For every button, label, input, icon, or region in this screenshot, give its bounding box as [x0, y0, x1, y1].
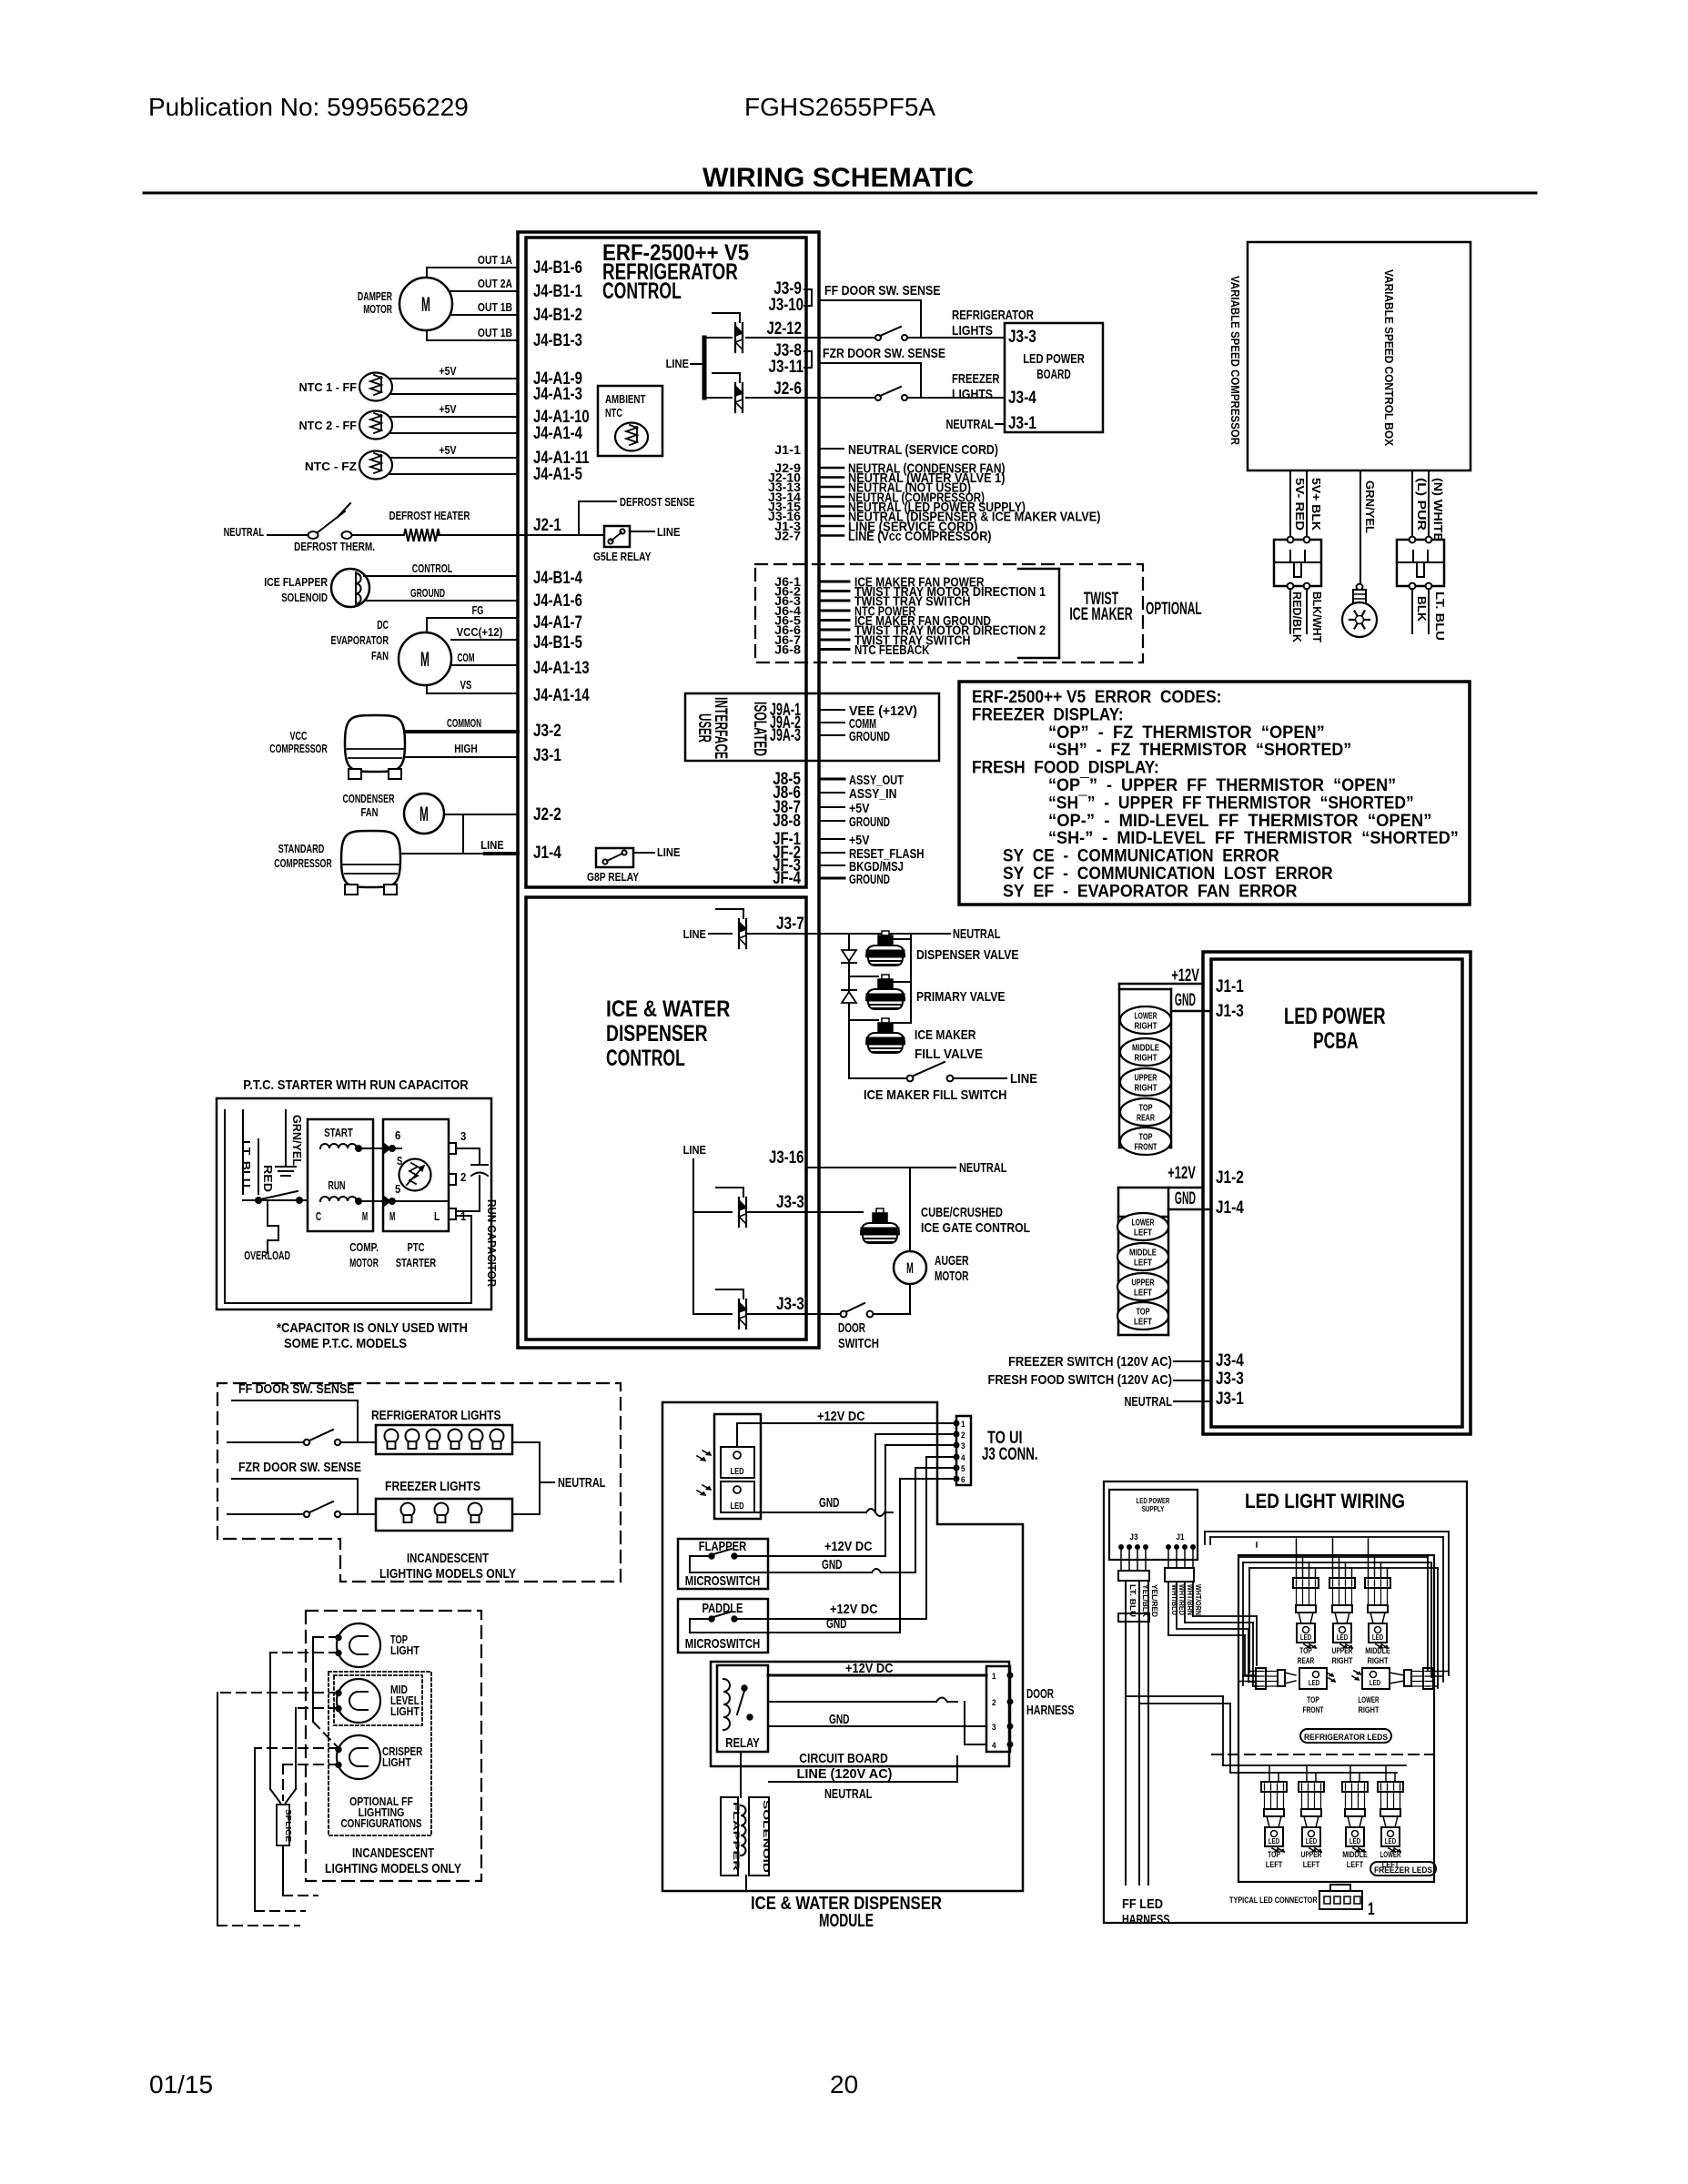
svg-text:LINE: LINE	[683, 927, 707, 941]
svg-text:“SH-” - MID-LEVEL FF THERM: “SH-” - MID-LEVEL FF THERMISTOR “SHORTED…	[1048, 829, 1459, 848]
svg-text:MICROSWITCH: MICROSWITCH	[685, 1636, 761, 1652]
svg-text:OUT 1B: OUT 1B	[478, 300, 512, 314]
svg-text:FGHS2655PF5A: FGHS2655PF5A	[744, 93, 935, 121]
svg-text:SY CE - COMMUNICATION ERRO: SY CE - COMMUNICATION ERROR	[1003, 847, 1279, 866]
svg-text:J3-7: J3-7	[776, 915, 804, 934]
svg-text:OUT 2A: OUT 2A	[478, 277, 513, 290]
svg-text:RUN: RUN	[329, 1178, 346, 1192]
svg-text:J1-4: J1-4	[533, 844, 561, 863]
svg-text:LOWER: LOWER	[1359, 1695, 1380, 1704]
svg-text:CUBE/CRUSHED: CUBE/CRUSHED	[921, 1205, 1003, 1220]
svg-text:UPPER: UPPER	[1132, 1279, 1156, 1289]
svg-text:INTERFACE: INTERFACE	[711, 697, 730, 759]
svg-text:NTC - FZ: NTC - FZ	[305, 460, 357, 473]
svg-text:AMBIENT: AMBIENT	[605, 392, 645, 406]
svg-text:MIDDLE: MIDDLE	[1132, 1044, 1159, 1054]
svg-text:OUT 1A: OUT 1A	[478, 253, 513, 267]
svg-text:J2-1: J2-1	[533, 516, 561, 535]
svg-text:ICE MAKER: ICE MAKER	[915, 1027, 976, 1043]
svg-text:CONFIGURATIONS: CONFIGURATIONS	[341, 1816, 422, 1830]
svg-text:J3 CONN.: J3 CONN.	[982, 1445, 1038, 1464]
svg-text:LEFT: LEFT	[1266, 1860, 1283, 1869]
svg-text:1: 1	[1368, 1900, 1375, 1919]
svg-text:FLAPPER: FLAPPER	[732, 1802, 741, 1872]
svg-text:FRONT: FRONT	[1303, 1705, 1324, 1714]
svg-text:G8P RELAY: G8P RELAY	[587, 870, 639, 884]
svg-text:J3-1: J3-1	[1216, 1390, 1244, 1409]
svg-text:DISPENSER VALVE: DISPENSER VALVE	[916, 947, 1019, 963]
svg-text:J4-A1-6: J4-A1-6	[533, 591, 582, 611]
svg-text:INCANDESCENT: INCANDESCENT	[407, 1551, 489, 1566]
svg-text:NEUTRAL: NEUTRAL	[1125, 1394, 1173, 1410]
svg-text:J2-2: J2-2	[533, 805, 561, 824]
svg-text:6: 6	[961, 1475, 965, 1484]
svg-text:L: L	[434, 1209, 440, 1223]
svg-text:FRESH FOOD DISPLAY:: FRESH FOOD DISPLAY:	[972, 759, 1159, 778]
svg-text:BLK/WHT: BLK/WHT	[1310, 591, 1324, 642]
svg-text:M: M	[389, 1209, 395, 1223]
svg-text:LINE: LINE	[480, 838, 504, 852]
svg-text:LED LIGHT WIRING: LED LIGHT WIRING	[1245, 1490, 1405, 1512]
svg-text:STANDARD: STANDARD	[278, 842, 325, 855]
svg-text:LIGHT: LIGHT	[390, 1704, 419, 1718]
svg-text:LEFT: LEFT	[1382, 1860, 1400, 1869]
svg-text:DAMPER: DAMPER	[358, 289, 393, 303]
svg-text:LED: LED	[1349, 1837, 1360, 1845]
svg-text:FREEZER: FREEZER	[952, 371, 1000, 387]
svg-text:WIRING SCHEMATIC: WIRING SCHEMATIC	[702, 163, 974, 193]
svg-text:LED: LED	[1337, 1633, 1348, 1642]
svg-text:COMP.: COMP.	[349, 1240, 379, 1254]
svg-text:J3-3: J3-3	[776, 1193, 804, 1212]
svg-text:LINE (120V AC): LINE (120V AC)	[797, 1766, 893, 1782]
svg-text:GROUND: GROUND	[410, 586, 445, 600]
svg-text:TOP: TOP	[1268, 1850, 1280, 1859]
svg-text:RIGHT: RIGHT	[1332, 1656, 1353, 1665]
svg-text:ICE MAKER: ICE MAKER	[1069, 605, 1132, 624]
svg-text:J4-A1-14: J4-A1-14	[533, 686, 590, 705]
svg-text:SWITCH: SWITCH	[838, 1336, 879, 1351]
svg-text:NEUTRAL: NEUTRAL	[224, 525, 264, 539]
svg-text:J2-6: J2-6	[773, 379, 802, 399]
svg-text:+12V DC: +12V DC	[830, 1602, 878, 1617]
svg-text:NTC 1 - FF: NTC 1 - FF	[299, 380, 358, 394]
svg-text:SUPPLY: SUPPLY	[1142, 1505, 1165, 1513]
svg-text:LINE: LINE	[657, 845, 681, 859]
svg-text:“SH” - FZ THERMISTOR “SHOR: “SH” - FZ THERMISTOR “SHORTED”	[1048, 741, 1351, 760]
svg-text:+12V: +12V	[1167, 1164, 1196, 1183]
svg-text:RUN CAPACITOR: RUN CAPACITOR	[485, 1199, 499, 1288]
svg-text:“SH¯” - UPPER FF THERMISTOR: “SH¯” - UPPER FF THERMISTOR “SHORTED”	[1048, 794, 1414, 813]
svg-text:NEUTRAL: NEUTRAL	[558, 1475, 606, 1491]
svg-text:TOP: TOP	[1299, 1646, 1312, 1655]
svg-text:FAN: FAN	[361, 805, 379, 819]
svg-text:LEFT: LEFT	[1134, 1228, 1152, 1239]
svg-text:J3: J3	[1129, 1532, 1137, 1542]
svg-text:FILL VALVE: FILL VALVE	[915, 1046, 983, 1062]
svg-text:RIGHT: RIGHT	[1135, 1054, 1157, 1064]
svg-text:LEFT: LEFT	[1303, 1860, 1320, 1869]
svg-text:LED: LED	[731, 1501, 744, 1512]
svg-text:GND: GND	[1175, 1189, 1196, 1208]
svg-text:BLK: BLK	[1415, 596, 1429, 622]
svg-text:MIDDLE: MIDDLE	[1365, 1646, 1390, 1655]
svg-text:ICE & WATER: ICE & WATER	[606, 996, 730, 1022]
svg-text:1: 1	[992, 1672, 996, 1681]
svg-text:FF LED: FF LED	[1122, 1896, 1163, 1912]
svg-text:J1-1: J1-1	[774, 443, 801, 457]
svg-text:J3-3: J3-3	[1008, 328, 1036, 347]
svg-text:YEL/RED: YEL/RED	[1150, 1584, 1158, 1617]
svg-text:PCBA: PCBA	[1313, 1028, 1359, 1054]
svg-text:J4-B1-5: J4-B1-5	[533, 633, 582, 652]
svg-text:3: 3	[961, 1441, 965, 1451]
svg-text:J4-B1-6: J4-B1-6	[533, 258, 582, 278]
svg-text:J1: J1	[1176, 1532, 1184, 1542]
svg-text:J3-3: J3-3	[1216, 1370, 1244, 1389]
svg-text:LT. BLU: LT. BLU	[1433, 591, 1447, 641]
svg-text:Publication No: 5995656229: Publication No: 5995656229	[148, 93, 469, 121]
svg-text:PRIMARY VALVE: PRIMARY VALVE	[916, 989, 1006, 1005]
svg-text:TYPICAL LED CONNECTOR: TYPICAL LED CONNECTOR	[1229, 1896, 1318, 1905]
svg-text:OPTIONAL: OPTIONAL	[1146, 600, 1202, 619]
svg-text:GROUND: GROUND	[849, 872, 890, 887]
svg-text:LINE (Vcc COMPRESSOR): LINE (Vcc COMPRESSOR)	[848, 529, 992, 544]
svg-text:LIGHTS: LIGHTS	[952, 387, 993, 402]
svg-text:VARIABLE SPEED COMPRESSOR: VARIABLE SPEED COMPRESSOR	[1228, 276, 1242, 446]
svg-text:ASSY_IN: ASSY_IN	[849, 786, 897, 802]
svg-text:PTC: PTC	[408, 1240, 425, 1254]
svg-text:DEFROST SENSE: DEFROST SENSE	[620, 495, 695, 509]
svg-text:REAR: REAR	[1137, 1114, 1156, 1124]
svg-text:RIGHT: RIGHT	[1135, 1084, 1157, 1094]
svg-text:CIRCUIT BOARD: CIRCUIT BOARD	[799, 1751, 888, 1766]
svg-text:OUT 1B: OUT 1B	[478, 326, 512, 339]
svg-text:M: M	[419, 803, 429, 825]
svg-text:NEUTRAL: NEUTRAL	[946, 417, 995, 432]
svg-text:“OP” - FZ THERMISTOR “OPEN: “OP” - FZ THERMISTOR “OPEN”	[1048, 723, 1325, 743]
svg-text:GND: GND	[819, 1495, 840, 1511]
svg-text:+12V DC: +12V DC	[824, 1539, 873, 1554]
svg-text:5V+ BLK: 5V+ BLK	[1309, 478, 1323, 531]
svg-text:M: M	[362, 1209, 368, 1223]
svg-text:20: 20	[830, 2070, 858, 2098]
svg-text:GND: GND	[1175, 991, 1196, 1010]
svg-text:DISPENSER: DISPENSER	[606, 1021, 708, 1046]
svg-text:J3-10: J3-10	[769, 296, 804, 315]
svg-text:M: M	[906, 1259, 914, 1277]
svg-text:VARIABLE SPEED CONTROL BOX: VARIABLE SPEED CONTROL BOX	[1382, 269, 1396, 446]
svg-text:LIGHTING MODELS ONLY: LIGHTING MODELS ONLY	[325, 1861, 461, 1876]
svg-text:COMPRESSOR: COMPRESSOR	[269, 742, 328, 755]
svg-text:J4-B1-4: J4-B1-4	[533, 569, 582, 588]
svg-text:CONDENSER: CONDENSER	[342, 792, 395, 805]
svg-text:LED: LED	[1372, 1633, 1383, 1642]
svg-text:LIGHT: LIGHT	[382, 1755, 411, 1769]
svg-text:STARTER: STARTER	[396, 1256, 437, 1269]
svg-text:+5V: +5V	[440, 402, 457, 416]
svg-text:+5V: +5V	[440, 443, 457, 457]
svg-text:UPPER: UPPER	[1332, 1646, 1353, 1655]
svg-text:3: 3	[992, 1723, 996, 1732]
svg-text:TOP: TOP	[1139, 1133, 1153, 1143]
svg-text:J1-3: J1-3	[1216, 1002, 1244, 1021]
svg-text:+12V DC: +12V DC	[845, 1661, 894, 1676]
svg-text:HIGH: HIGH	[454, 742, 477, 755]
svg-text:(L) PUR: (L) PUR	[1415, 478, 1429, 531]
svg-text:MICROSWITCH: MICROSWITCH	[685, 1573, 761, 1589]
svg-text:DEFROST THERM.: DEFROST THERM.	[294, 540, 375, 553]
svg-text:ISOLATED: ISOLATED	[750, 702, 769, 756]
svg-text:HARNESS: HARNESS	[1026, 1703, 1075, 1718]
svg-text:LED POWER: LED POWER	[1284, 1004, 1386, 1029]
svg-text:G5LE RELAY: G5LE RELAY	[593, 550, 652, 563]
svg-text:J4-B1-3: J4-B1-3	[533, 331, 582, 350]
svg-text:NTC 2 - FF: NTC 2 - FF	[299, 419, 358, 432]
svg-text:COMMON: COMMON	[447, 716, 481, 730]
svg-text:LED: LED	[1306, 1837, 1317, 1845]
svg-text:LOWER: LOWER	[1380, 1850, 1401, 1859]
svg-text:M: M	[421, 293, 430, 316]
svg-text:LED POWER: LED POWER	[1137, 1497, 1170, 1505]
svg-text:MIDDLE: MIDDLE	[1129, 1249, 1157, 1259]
svg-text:FF DOOR SW. SENSE: FF DOOR SW. SENSE	[824, 283, 941, 298]
svg-text:RIGHT: RIGHT	[1359, 1705, 1380, 1714]
svg-text:2: 2	[961, 1431, 965, 1440]
svg-text:LINE: LINE	[1010, 1071, 1037, 1087]
svg-text:4: 4	[961, 1453, 965, 1462]
svg-text:EVAPORATOR: EVAPORATOR	[331, 633, 389, 647]
svg-text:LEFT: LEFT	[1134, 1318, 1152, 1328]
svg-text:LED: LED	[1309, 1679, 1319, 1687]
svg-text:+5V: +5V	[440, 364, 457, 378]
svg-text:REAR: REAR	[1298, 1656, 1315, 1665]
svg-text:START: START	[324, 1126, 353, 1139]
svg-text:5: 5	[395, 1182, 400, 1196]
svg-text:(N) WHITE: (N) WHITE	[1431, 478, 1445, 541]
svg-text:LINE: LINE	[683, 1143, 707, 1157]
svg-text:2: 2	[992, 1698, 996, 1707]
svg-text:LOWER: LOWER	[1135, 1012, 1158, 1022]
svg-text:J3-11: J3-11	[769, 358, 804, 377]
svg-text:TOP: TOP	[1307, 1695, 1319, 1704]
svg-text:4: 4	[992, 1741, 996, 1750]
svg-text:VCC: VCC	[290, 729, 308, 743]
svg-text:LIGHT: LIGHT	[390, 1643, 419, 1657]
svg-text:SOLENOID: SOLENOID	[762, 1800, 771, 1874]
svg-text:J3-4: J3-4	[1008, 389, 1036, 408]
svg-text:J3-1: J3-1	[1008, 414, 1036, 433]
svg-text:J4-A1-3: J4-A1-3	[533, 385, 582, 404]
svg-text:J1-4: J1-4	[1216, 1198, 1244, 1218]
svg-text:C: C	[316, 1209, 322, 1223]
svg-text:GROUND: GROUND	[849, 814, 890, 830]
svg-text:6: 6	[395, 1128, 400, 1142]
svg-text:NEUTRAL (SERVICE CORD): NEUTRAL (SERVICE CORD)	[848, 442, 998, 458]
svg-text:FF DOOR SW. SENSE: FF DOOR SW. SENSE	[238, 1381, 355, 1397]
svg-text:J3-4: J3-4	[1216, 1351, 1244, 1370]
svg-text:FRESH FOOD SWITCH (120V AC): FRESH FOOD SWITCH (120V AC)	[988, 1372, 1173, 1388]
svg-text:ICE GATE CONTROL: ICE GATE CONTROL	[921, 1220, 1030, 1236]
svg-text:J3-16: J3-16	[769, 1148, 804, 1168]
svg-text:RED: RED	[261, 1165, 275, 1192]
svg-text:NEUTRAL: NEUTRAL	[824, 1786, 873, 1802]
svg-text:J4-B1-1: J4-B1-1	[533, 282, 582, 301]
svg-text:J1-1: J1-1	[1216, 977, 1244, 996]
svg-text:NEUTRAL: NEUTRAL	[953, 926, 1001, 942]
svg-text:LED POWER: LED POWER	[1023, 351, 1085, 367]
svg-text:LED: LED	[1300, 1633, 1311, 1642]
svg-text:DEFROST HEATER: DEFROST HEATER	[389, 509, 470, 522]
svg-text:NTC FEEBACK: NTC FEEBACK	[854, 642, 930, 658]
svg-text:SPLICE: SPLICE	[284, 1809, 292, 1843]
svg-text:MOTOR: MOTOR	[935, 1269, 969, 1284]
svg-text:GRN/YEL: GRN/YEL	[290, 1115, 304, 1166]
svg-text:LINE: LINE	[666, 357, 690, 370]
svg-text:GND: GND	[822, 1557, 843, 1572]
svg-text:FZR DOOR SW. SENSE: FZR DOOR SW. SENSE	[823, 346, 945, 361]
svg-text:GROUND: GROUND	[849, 729, 890, 744]
svg-text:UPPER: UPPER	[1135, 1074, 1158, 1084]
svg-text:CONTROL: CONTROL	[602, 278, 682, 304]
svg-text:WHT/ORN: WHT/ORN	[1194, 1584, 1202, 1615]
svg-text:LED: LED	[731, 1467, 744, 1477]
svg-text:LEFT: LEFT	[1134, 1259, 1152, 1269]
svg-text:RED/BLK: RED/BLK	[1290, 591, 1304, 643]
svg-text:LT. BLU: LT. BLU	[239, 1140, 253, 1188]
svg-text:FRONT: FRONT	[1135, 1143, 1157, 1153]
svg-text:MODULE: MODULE	[819, 1911, 874, 1931]
svg-text:SY EF - EVAPORATOR FAN ER: SY EF - EVAPORATOR FAN ERROR	[1003, 882, 1298, 901]
svg-text:VS: VS	[460, 678, 472, 692]
svg-text:LIGHTS: LIGHTS	[952, 323, 993, 339]
svg-text:P.T.C. STARTER WITH RUN CAPACI: P.T.C. STARTER WITH RUN CAPACITOR	[243, 1077, 469, 1093]
svg-text:CONTROL: CONTROL	[412, 561, 452, 575]
svg-text:REFRIGERATOR LIGHTS: REFRIGERATOR LIGHTS	[371, 1408, 501, 1423]
svg-text:RELAY: RELAY	[725, 1735, 760, 1751]
svg-text:J2-7: J2-7	[774, 530, 801, 543]
svg-text:5V- RED: 5V- RED	[1293, 478, 1307, 531]
svg-text:FREEZER LIGHTS: FREEZER LIGHTS	[385, 1479, 480, 1494]
svg-text:AUGER: AUGER	[935, 1253, 969, 1269]
svg-text:J2-12: J2-12	[767, 319, 803, 339]
svg-text:REFRIGERATOR: REFRIGERATOR	[952, 308, 1034, 323]
svg-text:2: 2	[460, 1170, 466, 1184]
svg-text:BOARD: BOARD	[1036, 367, 1071, 382]
svg-text:J3-2: J3-2	[533, 722, 561, 741]
svg-text:COM: COM	[458, 651, 475, 664]
svg-text:HARNESS: HARNESS	[1122, 1912, 1170, 1927]
svg-text:RIGHT: RIGHT	[1135, 1022, 1157, 1032]
svg-text:FAN: FAN	[371, 649, 389, 662]
svg-text:GRN/YEL: GRN/YEL	[1363, 480, 1377, 533]
svg-text:LOWER: LOWER	[1132, 1218, 1156, 1228]
svg-text:FG: FG	[472, 603, 484, 617]
svg-text:ICE MAKER FILL SWITCH: ICE MAKER FILL SWITCH	[864, 1087, 1007, 1103]
svg-text:M: M	[420, 648, 430, 671]
svg-text:TOP: TOP	[1139, 1104, 1153, 1114]
svg-text:SOME P.T.C. MODELS: SOME P.T.C. MODELS	[284, 1336, 407, 1351]
svg-text:REFRIGERATOR LEDS: REFRIGERATOR LEDS	[1304, 1733, 1388, 1742]
svg-text:TOP: TOP	[1137, 1308, 1150, 1318]
svg-text:LED: LED	[1269, 1837, 1279, 1845]
svg-text:MIDDLE: MIDDLE	[1342, 1850, 1368, 1859]
svg-text:J8-8: J8-8	[773, 812, 801, 831]
svg-text:J6-8: J6-8	[774, 643, 801, 657]
svg-text:VCC(+12): VCC(+12)	[457, 625, 503, 639]
svg-text:J1-2: J1-2	[1216, 1168, 1244, 1188]
svg-text:SOLENOID: SOLENOID	[281, 591, 328, 604]
svg-text:GND: GND	[829, 1712, 850, 1727]
svg-text:*CAPACITOR IS ONLY USED WITH: *CAPACITOR IS ONLY USED WITH	[277, 1320, 468, 1336]
svg-text:J4-B1-2: J4-B1-2	[533, 306, 582, 325]
svg-text:5: 5	[961, 1464, 965, 1473]
svg-text:FREEZER SWITCH (120V AC): FREEZER SWITCH (120V AC)	[1008, 1354, 1172, 1370]
svg-text:MOTOR: MOTOR	[363, 302, 392, 316]
svg-text:+12V DC: +12V DC	[817, 1409, 865, 1424]
svg-text:J3-3: J3-3	[776, 1295, 804, 1314]
svg-text:“OP¯” - UPPER FF THERMISTO: “OP¯” - UPPER FF THERMISTOR “OPEN”	[1048, 776, 1396, 795]
svg-text:FREEZER DISPLAY:: FREEZER DISPLAY:	[972, 705, 1124, 724]
svg-text:COMPRESSOR: COMPRESSOR	[274, 856, 332, 870]
svg-text:01/15: 01/15	[149, 2070, 213, 2098]
svg-text:LT. BLU: LT. BLU	[1128, 1584, 1137, 1617]
svg-text:LED: LED	[1370, 1679, 1380, 1687]
svg-text:ICE FLAPPER: ICE FLAPPER	[264, 575, 328, 589]
svg-text:LEFT: LEFT	[1134, 1289, 1152, 1299]
svg-text:1: 1	[961, 1420, 965, 1429]
svg-text:CONTROL: CONTROL	[606, 1046, 685, 1071]
svg-text:UPPER: UPPER	[1301, 1850, 1322, 1859]
svg-text:LIGHTING MODELS ONLY: LIGHTING MODELS ONLY	[379, 1566, 516, 1582]
svg-text:“OP-” - MID-LEVEL FF THERM: “OP-” - MID-LEVEL FF THERMISTOR “OPEN”	[1048, 812, 1431, 831]
svg-text:J4-A1-4: J4-A1-4	[533, 424, 582, 443]
svg-text:OVERLOAD: OVERLOAD	[244, 1249, 290, 1262]
svg-text:FZR DOOR SW. SENSE: FZR DOOR SW. SENSE	[238, 1460, 361, 1475]
svg-text:MOTOR: MOTOR	[349, 1256, 379, 1269]
svg-text:LED: LED	[1385, 1837, 1396, 1845]
svg-text:NEUTRAL: NEUTRAL	[959, 1160, 1007, 1176]
svg-text:RIGHT: RIGHT	[1368, 1656, 1389, 1665]
svg-text:GND: GND	[826, 1616, 847, 1632]
svg-text:USER: USER	[694, 713, 713, 743]
svg-text:LEFT: LEFT	[1347, 1860, 1364, 1869]
svg-text:J9A-3: J9A-3	[770, 726, 801, 745]
svg-text:JF-4: JF-4	[773, 869, 801, 888]
svg-text:J3-1: J3-1	[533, 746, 561, 765]
svg-text:ERF-2500++ V5 ERROR CODES:: ERF-2500++ V5 ERROR CODES:	[972, 688, 1221, 707]
svg-text:NTC: NTC	[605, 406, 622, 420]
svg-text:YEL/BLK: YEL/BLK	[1141, 1584, 1149, 1617]
svg-text:INCANDESCENT: INCANDESCENT	[352, 1845, 434, 1861]
svg-text:LINE: LINE	[657, 525, 681, 539]
svg-text:J4-A1-13: J4-A1-13	[533, 659, 590, 678]
svg-text:DOOR: DOOR	[838, 1320, 865, 1336]
svg-text:J4-A1-7: J4-A1-7	[533, 613, 582, 632]
svg-text:DOOR: DOOR	[1026, 1686, 1054, 1702]
svg-text:DC: DC	[377, 618, 389, 632]
svg-text:SY CF - COMMUNICATION LOST: SY CF - COMMUNICATION LOST ERROR	[1003, 864, 1333, 884]
svg-text:J4-A1-5: J4-A1-5	[533, 465, 582, 484]
svg-text:3: 3	[460, 1129, 466, 1143]
